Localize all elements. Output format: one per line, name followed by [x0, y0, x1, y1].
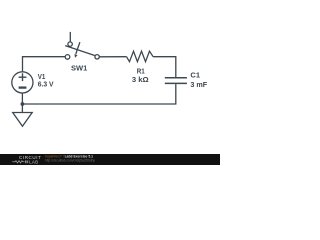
throw terminal circle	[68, 42, 72, 46]
wire switch to resistor	[99, 56, 126, 58]
wire capacitor bottom to ground node	[22, 84, 175, 104]
actuator arrowhead	[75, 54, 78, 58]
lever	[65, 46, 95, 56]
switch SW1	[65, 32, 99, 72]
ground	[13, 104, 33, 126]
left terminal circle	[65, 55, 70, 60]
minus sign	[19, 86, 27, 88]
bottom plate	[165, 82, 187, 84]
wire V1 bottom lead	[21, 93, 23, 104]
CircuitLab logo	[12, 155, 41, 164]
right terminal circle	[95, 55, 99, 59]
svg-text:3 kΩ: 3 kΩ	[132, 75, 149, 84]
svg-text:3 mF: 3 mF	[190, 80, 207, 89]
svg-text:LAB: LAB	[29, 159, 38, 164]
actuator arrow shaft	[76, 42, 80, 54]
stub (throw terminal lead)	[69, 32, 71, 42]
node junction dot	[21, 102, 25, 106]
footer bar	[0, 154, 220, 165]
top plate	[165, 77, 187, 79]
capacitor C1	[165, 70, 208, 89]
resistor R1	[127, 51, 154, 84]
svg-text:SW1: SW1	[71, 63, 87, 72]
wire top-left (V1 top lead to switch)	[23, 57, 66, 72]
svg-text:C1: C1	[190, 70, 200, 79]
plus sign	[19, 76, 27, 78]
wire resistor to capacitor top	[153, 57, 176, 77]
svg-text:http://circuitlab.com/c43q5a2l: http://circuitlab.com/c43q5a2l56dhp	[45, 159, 95, 163]
svg-text:6.3 V: 6.3 V	[38, 80, 54, 89]
voltage source V1	[12, 72, 54, 93]
